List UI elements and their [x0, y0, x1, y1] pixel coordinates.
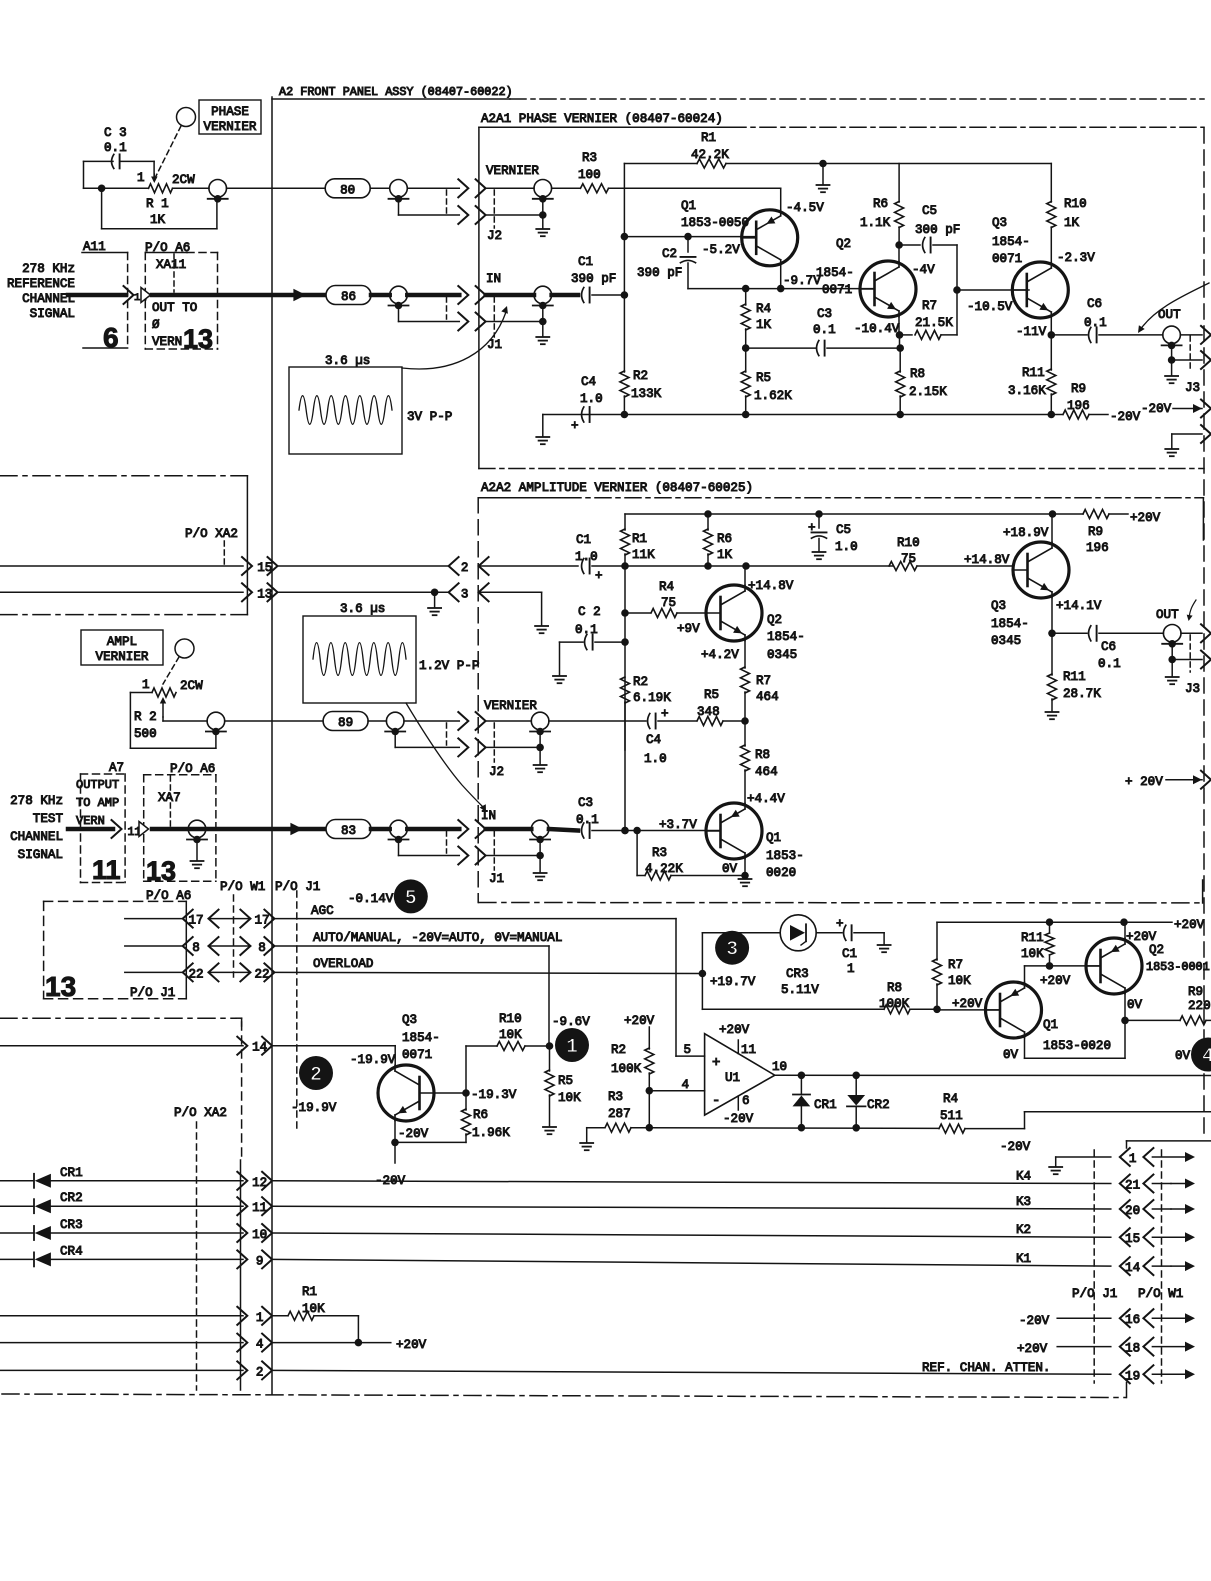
ground (J2 A2A2) [534, 732, 547, 773]
shield return 89 line [395, 732, 459, 748]
svg-text:J2: J2 [487, 229, 502, 243]
Q3 labels (A2A2) [964, 526, 1102, 648]
AUTO/MANUAL label [313, 931, 562, 945]
svg-text:R11: R11 [1021, 931, 1044, 945]
resistor R8 100K (AGC) [879, 981, 910, 1014]
-19.3V label [471, 1088, 517, 1102]
Q1 labels [681, 199, 824, 288]
wire pin14 to Q3 collector [272, 1046, 395, 1066]
svg-text:+20V: +20V [624, 1014, 655, 1028]
A2 assembly top dash-dot border [510, 98, 1204, 100]
feedthrough capacitor (80 line) [389, 180, 409, 203]
resistor R6 1K (A2A2) [704, 514, 733, 566]
svg-text:Q2: Q2 [836, 237, 851, 251]
J2 connector chevrons (80 shield) [458, 206, 485, 224]
pin 2 chevrons (A2A2) [449, 557, 489, 575]
pin 18 chevrons [1120, 1338, 1154, 1356]
svg-text:+14.1V: +14.1V [1056, 599, 1102, 613]
svg-text:1.2V P-P: 1.2V P-P [419, 659, 479, 673]
P/O XA2 label (upper) [185, 527, 238, 541]
pin 1 chevrons (left) [237, 1307, 272, 1325]
svg-text:Q3: Q3 [992, 216, 1007, 230]
arrow K2 off-page [1152, 1232, 1195, 1242]
ground (R11 A2A2) [1046, 712, 1059, 719]
wire R2 to R3 node [646, 1091, 654, 1132]
ground (pin13 row) [428, 592, 441, 615]
svg-text:Q1: Q1 [766, 831, 781, 845]
wire R3 to Q1 emitter [609, 188, 781, 210]
svg-text:R2: R2 [611, 1043, 626, 1057]
wire -20V feedback line [649, 1124, 938, 1132]
capacitor C3 label [104, 126, 127, 155]
Q3 labels (A2A1) [967, 216, 1095, 339]
Q1 labels (AGC) [1003, 1018, 1111, 1062]
thick wire 86 to feedthrough [371, 293, 390, 298]
wire pin 2 / REF row [0, 1370, 1111, 1374]
resistor R2 133K [620, 369, 662, 415]
A7 output box [81, 761, 126, 883]
svg-text:300 pF: 300 pF [915, 223, 960, 237]
svg-text:CR4: CR4 [60, 1244, 83, 1258]
zener CR3 5.11V [702, 915, 842, 997]
svg-text:1: 1 [1129, 1152, 1137, 1166]
svg-text:1853-0001: 1853-0001 [1146, 960, 1210, 974]
A11 connector box [82, 240, 128, 348]
svg-text:18: 18 [1125, 1342, 1140, 1356]
J1 connector chevrons (83 shield) [458, 847, 485, 865]
pin 14 chevrons [237, 1037, 272, 1055]
svg-text:1: 1 [142, 678, 150, 692]
wire Q2 emitter to -10.4V [896, 316, 904, 338]
wire K4 row [272, 1170, 1111, 1184]
feedthrough capacitor (A2A1 OUT) [1162, 326, 1182, 349]
resistor R6 1.1K [860, 164, 904, 246]
ground (pin1 right) [1049, 1167, 1062, 1174]
svg-text:0.1: 0.1 [813, 323, 836, 337]
resistor R7 21.5K [899, 299, 957, 339]
+4.4V label [747, 792, 785, 806]
svg-text:1.1K: 1.1K [860, 216, 891, 230]
J1 connector chevrons (83 main) [458, 820, 485, 838]
svg-text:0V: 0V [1127, 998, 1143, 1012]
svg-text:83: 83 [341, 824, 356, 838]
sheet ref 6 (bold) [103, 322, 119, 353]
svg-text:5: 5 [683, 1043, 691, 1057]
transistor Q2 1854-0071 (A2A1) [860, 261, 916, 317]
svg-text:OUT: OUT [1158, 308, 1181, 322]
svg-text:-4V: -4V [912, 263, 935, 277]
wire C3 line [742, 344, 904, 352]
sheet ref 13 (bold, AGC) [45, 971, 76, 1002]
wire C1 to node [592, 294, 624, 296]
pin 21 chevrons (right) [1120, 1175, 1154, 1193]
Q2 labels (A2A2) [677, 579, 805, 662]
svg-text:R5: R5 [756, 371, 771, 385]
wire R10 to node 1 [525, 1042, 553, 1050]
feedthrough capacitor (A2A2 OUT) [1162, 625, 1182, 648]
svg-text:J3: J3 [1185, 381, 1200, 395]
capacitor C3 0.1 (A2A2) [576, 796, 599, 838]
svg-text:C3: C3 [817, 307, 832, 321]
svg-text:TO AMP: TO AMP [76, 796, 119, 810]
278 KHz test channel label [10, 794, 63, 862]
J1 connector chevrons (86 shield) [458, 313, 485, 331]
svg-text:REFERENCE: REFERENCE [7, 277, 75, 291]
svg-text:P/O J1: P/O J1 [130, 986, 175, 1000]
svg-text:C3: C3 [578, 796, 593, 810]
svg-text:+9V: +9V [677, 622, 700, 636]
svg-text:-19.9V: -19.9V [291, 1101, 337, 1115]
svg-text:10K: 10K [1021, 947, 1044, 961]
feedthrough capacitor (J1 in) [533, 286, 553, 309]
thick wire to C3 [549, 829, 578, 831]
svg-text:R2: R2 [633, 675, 648, 689]
waveform box (1.2V P-P) [303, 602, 479, 703]
J1 pin dashed line (A2A2) [493, 831, 495, 870]
svg-text:+: + [595, 569, 603, 583]
ground (C2 A2A2) [553, 642, 566, 683]
J3 chevron (A2A2 shield) [1201, 651, 1211, 669]
svg-text:VERNIER: VERNIER [96, 650, 149, 664]
transistor Q1 1853-0020 (A2A2) [706, 803, 762, 859]
svg-text:+20V: +20V [1174, 918, 1205, 932]
svg-text:SIGNAL: SIGNAL [18, 848, 63, 862]
svg-text:R8: R8 [755, 748, 770, 762]
wire pin3 into box [479, 592, 542, 625]
P/O W1 label (top) [220, 880, 265, 894]
wire R8 line [702, 1008, 884, 1010]
ampl vernier knob [175, 639, 194, 658]
svg-text:K4: K4 [1016, 1170, 1031, 1184]
svg-text:OUT: OUT [1156, 608, 1179, 622]
capacitor C3 [112, 154, 120, 168]
svg-text:VERNIER: VERNIER [204, 120, 257, 134]
svg-text:80: 80 [340, 183, 355, 197]
svg-text:3: 3 [461, 587, 469, 601]
J2 connector chevrons (89 main) [458, 712, 485, 730]
wire pin19 drop [1126, 1383, 1128, 1398]
svg-text:2CW: 2CW [172, 173, 195, 187]
svg-text:4: 4 [681, 1078, 689, 1092]
svg-text:CR3: CR3 [786, 967, 809, 981]
P/O A6 label (XA7) [170, 762, 215, 776]
feedthrough capacitor (J1 A2A2) [530, 820, 550, 843]
waveform callout arrow (A2A1) [402, 306, 508, 369]
wiper wire [163, 717, 207, 721]
IN label (A2A1) [486, 272, 501, 286]
svg-text:1.0: 1.0 [580, 392, 603, 406]
svg-text:R10: R10 [1064, 197, 1087, 211]
svg-text:C6: C6 [1087, 297, 1102, 311]
J3 chevron (A2A2 out) [1201, 624, 1211, 642]
wire CR3 node [699, 933, 707, 1010]
pin 16 chevrons [1120, 1309, 1154, 1327]
wire J1 shield into box (A2A2) [486, 852, 544, 860]
dashed boundary x=241 (pin col) [241, 1022, 243, 1160]
-20V label (Q3 AGC) [398, 1127, 429, 1141]
wire -10.4V to C3 line [899, 335, 901, 348]
svg-text:R8: R8 [887, 981, 902, 995]
AMPL VERNIER panel label box [81, 630, 163, 665]
wire 80 line to feedthrough [370, 187, 390, 189]
svg-text:464: 464 [756, 690, 779, 704]
pin 1 row (right, gnd) [1056, 1157, 1111, 1166]
svg-text:Q1: Q1 [681, 199, 696, 213]
svg-text:2CW: 2CW [180, 679, 203, 693]
P/O XA2 boundary box (upper left) [0, 476, 247, 615]
svg-text:R2: R2 [633, 369, 648, 383]
VERNIER label (A2A2) [484, 699, 537, 713]
OUT label (A2A2) [1156, 608, 1179, 622]
svg-text:-: - [712, 1093, 720, 1109]
knob to wiper dashed link [156, 126, 181, 176]
test point 5 [394, 879, 428, 913]
wire Q1 base (A2A2) [592, 827, 721, 835]
Q2 labels (AGC) [1126, 930, 1210, 1012]
wire pin2 line [592, 562, 893, 570]
svg-text:5.11V: 5.11V [781, 983, 819, 997]
shield return 83 line [399, 840, 460, 856]
test point 1 [555, 1028, 589, 1062]
wire J1 shield into box [486, 318, 547, 326]
svg-text:+14.8V: +14.8V [964, 553, 1010, 567]
svg-text:6: 6 [742, 1094, 750, 1108]
shield J3 (A2A1) [1168, 345, 1202, 363]
P/O W1 label (bottom right) [1138, 1287, 1183, 1301]
svg-text:100K: 100K [879, 997, 910, 1011]
XA11 pin dashed line [173, 254, 175, 292]
wire J2 into box (A2A2) [486, 720, 532, 722]
wire AGC to op amp [274, 919, 704, 1057]
R2 wiper arrow [160, 697, 166, 717]
svg-text:CR2: CR2 [867, 1098, 890, 1112]
wire base Q1 [624, 233, 756, 241]
svg-text:OVERLOAD: OVERLOAD [313, 957, 373, 971]
-20V output (A2A1) [1141, 402, 1202, 416]
svg-text:28.7K: 28.7K [1063, 687, 1101, 701]
+20V label (Q1 AGC) [952, 997, 983, 1011]
pin 1 chevrons (right) [1120, 1148, 1154, 1166]
wire R10 top (AGC) [466, 1046, 497, 1093]
svg-text:R4: R4 [943, 1092, 958, 1106]
svg-text:K1: K1 [1016, 1252, 1031, 1266]
svg-text:AMPL: AMPL [107, 635, 137, 649]
resistor R11 10K (AGC) [1021, 922, 1054, 966]
svg-text:1.0: 1.0 [835, 540, 858, 554]
svg-text:0.1: 0.1 [575, 623, 598, 637]
thick wire 83 to feedthrough [371, 827, 390, 832]
wire K2 row [272, 1223, 1111, 1237]
P/O A6 label (XA11) [145, 241, 190, 255]
+19.7V label [710, 975, 756, 989]
pin 4 chevrons [237, 1334, 272, 1352]
J3 chevron (A2A1 out) [1201, 326, 1211, 344]
P/O A6 box (AGC) [44, 901, 187, 998]
wire Q1 collector to -9.7V line [780, 266, 782, 289]
arrow K3 off-page [1152, 1204, 1195, 1214]
J3 dashed pin line (A2A1) [1189, 336, 1191, 372]
svg-text:-2.3V: -2.3V [1057, 251, 1095, 265]
svg-text:CR1: CR1 [814, 1098, 837, 1112]
wire pin 14 row [0, 1045, 243, 1047]
svg-text:CR3: CR3 [60, 1218, 83, 1232]
svg-text:0V: 0V [722, 862, 738, 876]
svg-text:R3: R3 [652, 846, 667, 860]
arrow pin18 off-page [1152, 1342, 1195, 1352]
pin 14 chevrons (right) [1120, 1257, 1154, 1275]
thick wire 86 (through XA11) [152, 293, 326, 298]
svg-text:Q1: Q1 [1043, 1018, 1058, 1032]
svg-text:75: 75 [901, 552, 916, 566]
svg-text:R3: R3 [608, 1090, 623, 1104]
svg-text:11K: 11K [632, 548, 655, 562]
svg-text:-20V: -20V [1000, 1140, 1031, 1154]
XA11 labels [152, 258, 197, 349]
svg-text:C1: C1 [842, 947, 857, 961]
278 KHz reference channel label [7, 262, 75, 321]
diode CR3 row [0, 1218, 243, 1240]
wire -20V node [395, 1142, 466, 1163]
svg-text:390 pF: 390 pF [637, 266, 682, 280]
svg-text:C1: C1 [576, 533, 591, 547]
resistor R11 28.7K (A2A2) [1048, 633, 1102, 711]
ground (J3 A2A2) [1166, 660, 1179, 685]
svg-text:9: 9 [256, 1254, 264, 1268]
connector dashed tie (89) [446, 723, 448, 745]
resistor R10 1K (A2A1) [1047, 164, 1087, 263]
svg-text:5: 5 [405, 887, 417, 910]
svg-text:1K: 1K [150, 213, 166, 227]
svg-text:R7: R7 [922, 299, 937, 313]
svg-text:-0.14V: -0.14V [348, 892, 394, 906]
svg-text:1.0: 1.0 [575, 550, 598, 564]
svg-text:-19.9V: -19.9V [350, 1053, 396, 1067]
svg-text:0.1: 0.1 [1084, 316, 1107, 330]
svg-text:-11V: -11V [1016, 325, 1047, 339]
transistor Q1 1853-0020 (AGC) [986, 982, 1042, 1038]
OUT label (A2A1) [1158, 308, 1181, 322]
svg-text:0.1: 0.1 [1098, 657, 1121, 671]
svg-text:0020: 0020 [766, 866, 796, 880]
svg-text:IN: IN [481, 809, 496, 823]
wire R8 to R7 node [910, 1006, 941, 1014]
shield return 80 line [399, 199, 460, 215]
svg-text:R11: R11 [1063, 670, 1086, 684]
svg-text:2: 2 [256, 1365, 264, 1379]
+20V rail (A2A2) [625, 510, 1056, 518]
svg-text:-20V: -20V [1019, 1314, 1050, 1328]
ground (Q1 A2A2) [739, 876, 752, 887]
thick wire 86 to connector [407, 293, 459, 298]
svg-text:1854-: 1854- [767, 630, 805, 644]
AGC label [311, 904, 334, 918]
-0.14V label [348, 892, 394, 906]
svg-text:R9: R9 [1188, 985, 1203, 999]
svg-text:3V P-P: 3V P-P [407, 410, 452, 424]
wire K3 row [272, 1195, 1111, 1209]
R1 wiper arrow [151, 174, 158, 183]
pin 15 chevrons (right) [1120, 1228, 1154, 1246]
capacitor C2 0.1 (A2A2) [560, 605, 626, 650]
-9.6V label [552, 1015, 590, 1029]
svg-text:3.16K: 3.16K [1008, 384, 1046, 398]
wire OVERLOAD [274, 972, 702, 973]
svg-text:R1: R1 [701, 131, 716, 145]
svg-text:278 KHz: 278 KHz [22, 262, 75, 276]
pin 2 chevrons [237, 1361, 272, 1379]
svg-text:13: 13 [45, 971, 76, 1002]
ground (R3 AGC) [580, 1128, 593, 1151]
svg-text:+19.7V: +19.7V [710, 975, 756, 989]
svg-text:R1: R1 [302, 1285, 317, 1299]
svg-text:R7: R7 [756, 674, 771, 688]
wire Q3 collector (A2A2) [1051, 514, 1053, 542]
resistor R3 4.22K (A2A2) [637, 831, 745, 881]
svg-text:+: + [712, 1055, 720, 1071]
wire Q1 base (AGC) [937, 1009, 1000, 1011]
svg-text:2.15K: 2.15K [909, 385, 947, 399]
resistor R4 511 [939, 1092, 965, 1133]
svg-text:10K: 10K [302, 1302, 325, 1316]
svg-text:+18.9V: +18.9V [1003, 526, 1049, 540]
svg-text:R6: R6 [873, 197, 888, 211]
svg-text:13: 13 [146, 856, 176, 886]
J3 label (A2A2) [1185, 682, 1200, 696]
dash-dot boundary (left, y=1018) [0, 1018, 242, 1026]
pin 11 chevrons [237, 1197, 272, 1215]
J3 chevron (A2A1 shield) [1201, 351, 1211, 369]
pin 20 chevrons (right) [1120, 1200, 1154, 1218]
wire J2 shield into box [486, 211, 547, 219]
svg-text:-10.5V: -10.5V [967, 300, 1013, 314]
A7 labels [76, 778, 119, 828]
svg-text:R10: R10 [499, 1012, 522, 1026]
Q1 labels (A2A2) [659, 818, 804, 880]
ground (pin3) [535, 626, 548, 633]
wire C6 to OUT [1099, 334, 1163, 336]
svg-text:R9: R9 [1071, 382, 1086, 396]
svg-text:Q2: Q2 [1149, 943, 1164, 957]
wire pin1 riser [1127, 1141, 1211, 1148]
thick wire J1 into box (A2A2) [486, 827, 532, 832]
svg-text:R1: R1 [632, 532, 647, 546]
svg-text:2: 2 [461, 561, 469, 575]
svg-text:+20V: +20V [1126, 930, 1157, 944]
wire -11V to C6 [1051, 334, 1087, 336]
svg-text:R4: R4 [756, 302, 771, 316]
svg-text:4: 4 [1202, 1046, 1211, 1069]
R1 feedback rail [624, 160, 1051, 168]
IN label (A2A2) [481, 809, 496, 823]
svg-text:220: 220 [1188, 999, 1211, 1013]
wire J2 shield into box (A2A2) [486, 744, 544, 752]
svg-text:1: 1 [256, 1311, 264, 1325]
transistor Q3 1854-0071 (AGC) [378, 1065, 434, 1121]
svg-text:1.96K: 1.96K [472, 1126, 510, 1140]
svg-text:1K: 1K [756, 318, 772, 332]
svg-text:2: 2 [310, 1064, 322, 1087]
svg-text:Ø: Ø [152, 318, 160, 332]
thick wire J1 into box [486, 293, 534, 298]
svg-text:0V: 0V [1003, 1048, 1019, 1062]
thick wire 83 (left) [68, 827, 113, 832]
wire Q2 collector [895, 241, 903, 261]
svg-text:+20V: +20V [396, 1338, 427, 1352]
R2 pot wiring [130, 693, 216, 749]
svg-text:+20V: +20V [952, 997, 983, 1011]
wire op amp output [775, 1072, 1211, 1080]
ground (J2 vernier) [536, 199, 549, 236]
